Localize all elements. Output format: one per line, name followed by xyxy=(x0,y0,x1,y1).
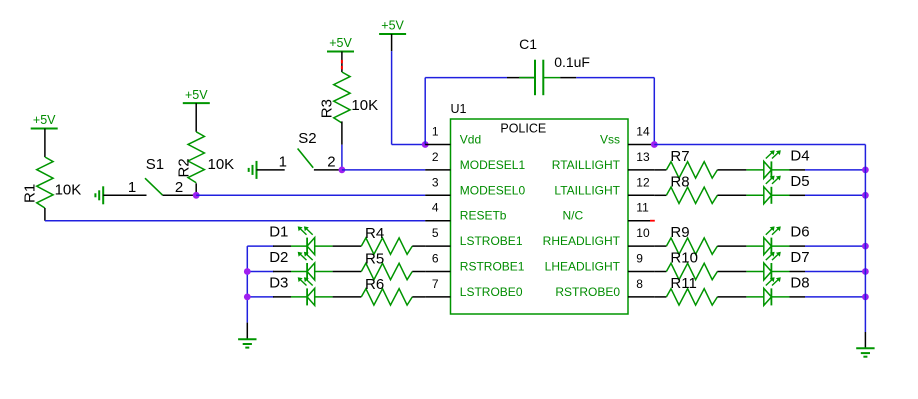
svg-text:LHEADLIGHT: LHEADLIGHT xyxy=(545,260,621,274)
wire R7 to D4 xyxy=(717,169,746,171)
svg-text:RHEADLIGHT: RHEADLIGHT xyxy=(543,234,621,248)
svg-text:10: 10 xyxy=(636,226,650,240)
lead D5 to wire xyxy=(771,194,789,196)
U1 pin 4 stub xyxy=(425,220,450,222)
U1 pin 5 stub xyxy=(425,245,450,247)
wire left rail to ground xyxy=(246,323,248,340)
lead D2 to wire xyxy=(314,271,333,273)
wire D7 to rail xyxy=(790,271,806,273)
power +5V for R3 xyxy=(327,36,354,51)
resistor R5 xyxy=(361,263,412,279)
lead D4 to wire xyxy=(771,169,789,171)
wire R9 to D6 xyxy=(717,245,746,247)
wire to LED D2 xyxy=(273,271,291,273)
ground left LED rail xyxy=(238,339,256,347)
U1 pin 2 stub xyxy=(425,169,450,171)
power +5V for U1 Vdd xyxy=(379,19,406,34)
svg-text:D5: D5 xyxy=(790,173,809,190)
wire D5 to rail xyxy=(790,194,806,196)
LED D2 xyxy=(298,252,315,280)
svg-text:+5V: +5V xyxy=(185,88,208,102)
U1 pin 12 stub xyxy=(628,194,654,196)
node junction R2/S1 xyxy=(193,192,200,199)
resistor R8 xyxy=(666,187,717,203)
svg-text:2: 2 xyxy=(175,179,183,196)
switch S1 xyxy=(145,156,164,195)
net LED cathode rail left xyxy=(246,246,248,323)
junction left rail D2 xyxy=(244,268,251,275)
svg-text:LTAILLIGHT: LTAILLIGHT xyxy=(554,183,620,197)
svg-text:R4: R4 xyxy=(365,225,384,242)
wire C1 right riser xyxy=(653,78,655,145)
resistor R6 xyxy=(361,289,412,305)
LED D1 xyxy=(298,226,315,254)
svg-text:14: 14 xyxy=(636,125,650,139)
U1 pin 3 stub xyxy=(425,194,450,196)
lead of D7 xyxy=(746,271,764,273)
net LED cathode rail right xyxy=(864,145,866,333)
LED D7 xyxy=(764,252,781,280)
svg-text:R9: R9 xyxy=(670,224,689,241)
wire U1 to R8 xyxy=(654,194,666,196)
wire right rail to ground xyxy=(864,332,866,348)
svg-text:+5V: +5V xyxy=(33,113,56,127)
lead of D3 xyxy=(291,296,307,298)
net VSS wire pin14 to rail xyxy=(654,144,865,146)
net MODESEL1 wire to pin 2 xyxy=(342,169,425,171)
lead D7 to wire xyxy=(771,271,789,273)
node junction pin14/Vss xyxy=(651,141,658,148)
wire S2 pin2 to node xyxy=(314,169,342,171)
U1 pin 13 stub xyxy=(628,169,654,171)
ground at S1 pin 1 xyxy=(95,186,103,204)
svg-text:D1: D1 xyxy=(269,224,288,241)
net MODESEL0 wire to pin 3 xyxy=(196,194,425,196)
svg-text:R11: R11 xyxy=(670,275,696,292)
net VDD wire vertical xyxy=(391,51,393,144)
wire R10 to D7 xyxy=(717,271,746,273)
resistor R10 xyxy=(666,263,717,279)
lead of D5 xyxy=(746,194,764,196)
net wire D4 cathode xyxy=(805,169,865,171)
svg-text:1: 1 xyxy=(432,125,439,139)
wire S1 pin2 to node xyxy=(163,194,197,196)
svg-text:2: 2 xyxy=(432,150,439,164)
LED D6 xyxy=(764,226,781,254)
wire R3 bottom to node xyxy=(341,145,343,170)
wire C1 left riser xyxy=(424,78,426,145)
svg-text:10K: 10K xyxy=(208,156,235,173)
U1 pin 9 stub xyxy=(628,271,654,273)
svg-text:R5: R5 xyxy=(365,251,384,268)
svg-text:2: 2 xyxy=(327,154,335,171)
wire to LED D1 xyxy=(273,245,291,247)
wire U1 to R11 xyxy=(654,296,666,298)
wire D8 to rail xyxy=(790,296,806,298)
svg-text:D4: D4 xyxy=(790,147,809,164)
svg-text:C1: C1 xyxy=(519,36,537,52)
wire to LED D3 xyxy=(273,296,291,298)
svg-text:Vdd: Vdd xyxy=(460,133,481,147)
junction right rail D4 xyxy=(862,167,869,174)
net wire D7 cathode xyxy=(805,271,865,273)
node junction pin1/Vdd xyxy=(422,141,429,148)
svg-text:D2: D2 xyxy=(269,249,288,266)
svg-text:RTAILLIGHT: RTAILLIGHT xyxy=(552,158,621,172)
svg-text:10K: 10K xyxy=(55,182,82,199)
svg-text:1: 1 xyxy=(128,179,136,196)
wire R2 bottom xyxy=(195,183,197,195)
svg-text:13: 13 xyxy=(636,150,650,164)
svg-text:RESETb: RESETb xyxy=(460,209,507,223)
wire R1 bottom xyxy=(44,208,46,221)
U1 pin 10 stub xyxy=(628,245,654,247)
svg-text:R6: R6 xyxy=(365,276,384,293)
LED D8 xyxy=(764,277,781,305)
power +5V for R2 xyxy=(183,88,210,103)
svg-text:12: 12 xyxy=(636,175,650,189)
svg-text:S1: S1 xyxy=(146,156,164,173)
svg-text:RSTROBE1: RSTROBE1 xyxy=(460,260,525,274)
lead D3 to wire xyxy=(314,296,333,298)
svg-text:U1: U1 xyxy=(451,102,467,116)
wire R6 to U1 pin 7 xyxy=(412,296,425,298)
ground at S2 pin 1 xyxy=(249,161,257,179)
svg-text:LSTROBE0: LSTROBE0 xyxy=(460,285,523,299)
net wire D6 cathode xyxy=(805,245,865,247)
node junction R3/S2 xyxy=(339,167,346,174)
wire +5V to R2 xyxy=(195,103,197,132)
ERC marker red dashes on R3 supply wire xyxy=(341,60,343,69)
wire left rail to D3 xyxy=(247,296,274,298)
svg-text:1: 1 xyxy=(279,154,287,171)
junction left rail D3 xyxy=(244,294,251,301)
junction right rail D6 xyxy=(862,243,869,250)
wire R11 to D8 xyxy=(717,296,746,298)
resistor R1 xyxy=(21,157,53,208)
LED D4 xyxy=(764,150,781,178)
svg-text:6: 6 xyxy=(432,252,439,266)
wire left rail to D2 xyxy=(247,271,274,273)
lead of D8 xyxy=(746,296,764,298)
svg-text:RSTROBE0: RSTROBE0 xyxy=(555,285,620,299)
power +5V for R1 xyxy=(31,113,58,128)
svg-text:R3: R3 xyxy=(318,99,335,118)
svg-text:S2: S2 xyxy=(298,130,316,147)
U1 pin 14 stub xyxy=(628,144,654,146)
wire R3 bottom xyxy=(341,121,343,144)
svg-text:D3: D3 xyxy=(269,274,288,291)
ground right LED rail xyxy=(856,348,874,356)
LED D3 xyxy=(298,277,315,305)
svg-text:+5V: +5V xyxy=(381,19,404,33)
wire left rail to D1 xyxy=(247,245,274,247)
net VDD wire to pin 1 xyxy=(392,144,426,146)
wire +5V to R1 xyxy=(44,129,46,158)
svg-text:R2: R2 xyxy=(176,158,193,177)
wire D2 to R5 xyxy=(333,271,362,273)
svg-text:R10: R10 xyxy=(670,250,698,267)
wire U1 to R10 xyxy=(654,271,666,273)
svg-text:MODESEL0: MODESEL0 xyxy=(460,183,526,197)
op IC U1 POLICE body xyxy=(451,102,629,314)
U1 pin 11 stub xyxy=(628,220,650,222)
svg-text:R7: R7 xyxy=(670,148,689,165)
resistor R7 xyxy=(666,162,717,178)
svg-text:8: 8 xyxy=(636,277,643,291)
lead D1 to wire xyxy=(314,245,333,247)
svg-text:10K: 10K xyxy=(351,97,378,114)
no-connect marker pin 11 xyxy=(650,220,655,222)
lead D6 to wire xyxy=(771,245,789,247)
lead D8 to wire xyxy=(771,296,789,298)
U1 pin 8 stub xyxy=(628,296,654,298)
svg-text:0.1uF: 0.1uF xyxy=(554,54,590,70)
wire C1 left horizontal xyxy=(425,77,507,79)
svg-text:D6: D6 xyxy=(790,224,809,241)
svg-text:Vss: Vss xyxy=(600,133,620,147)
wire S2 pin1 xyxy=(257,169,285,171)
wire S1 pin1 xyxy=(103,194,146,196)
switch S2 xyxy=(298,130,317,168)
junction right rail D8 xyxy=(862,294,869,301)
svg-text:R8: R8 xyxy=(670,173,689,190)
svg-text:LSTROBE1: LSTROBE1 xyxy=(460,234,523,248)
resistor R2 xyxy=(176,132,205,183)
svg-text:11: 11 xyxy=(636,201,649,215)
svg-text:N/C: N/C xyxy=(563,209,584,223)
svg-text:D7: D7 xyxy=(790,249,809,266)
resistor R9 xyxy=(666,238,717,254)
svg-text:MODESEL1: MODESEL1 xyxy=(460,158,526,172)
wire R4 to U1 pin 5 xyxy=(412,245,425,247)
wire C1 right horizontal xyxy=(576,77,654,79)
wire +5V to R3 xyxy=(341,52,343,73)
svg-text:3: 3 xyxy=(432,175,439,189)
wire +5V stub xyxy=(391,34,393,51)
U1 pin 7 stub xyxy=(425,296,450,298)
wire R8 to D5 xyxy=(717,194,746,196)
svg-text:POLICE: POLICE xyxy=(500,122,546,136)
svg-text:D8: D8 xyxy=(790,274,809,291)
U1 pin 1 stub xyxy=(425,144,450,146)
svg-text:4: 4 xyxy=(432,201,439,215)
resistor R3 xyxy=(318,72,350,123)
wire D3 to R6 xyxy=(333,296,362,298)
wire D1 to R4 xyxy=(333,245,362,247)
net wire D8 cathode xyxy=(805,296,865,298)
svg-text:5: 5 xyxy=(432,226,439,240)
wire D6 to rail xyxy=(790,245,806,247)
resistor R4 xyxy=(361,238,412,254)
lead of D6 xyxy=(746,245,764,247)
junction right rail D5 xyxy=(862,192,869,199)
lead of D4 xyxy=(746,169,764,171)
svg-text:7: 7 xyxy=(432,277,439,291)
lead of D2 xyxy=(291,271,307,273)
net MODESEL0b wire R1 to pin 4 xyxy=(45,220,425,222)
wire U1 to R7 xyxy=(654,169,666,171)
lead of D1 xyxy=(291,245,307,247)
wire R5 to U1 pin 6 xyxy=(412,271,425,273)
junction right rail D7 xyxy=(862,268,869,275)
svg-text:R1: R1 xyxy=(21,184,38,203)
U1 pin 6 stub xyxy=(425,271,450,273)
svg-text:+5V: +5V xyxy=(329,36,352,50)
wire U1 to R9 xyxy=(654,245,666,247)
resistor R11 xyxy=(666,289,717,305)
net wire D5 cathode xyxy=(805,194,865,196)
capacitor C1 xyxy=(507,60,576,95)
LED D5 xyxy=(764,176,781,204)
wire D4 to rail xyxy=(790,169,806,171)
svg-text:9: 9 xyxy=(636,252,643,266)
